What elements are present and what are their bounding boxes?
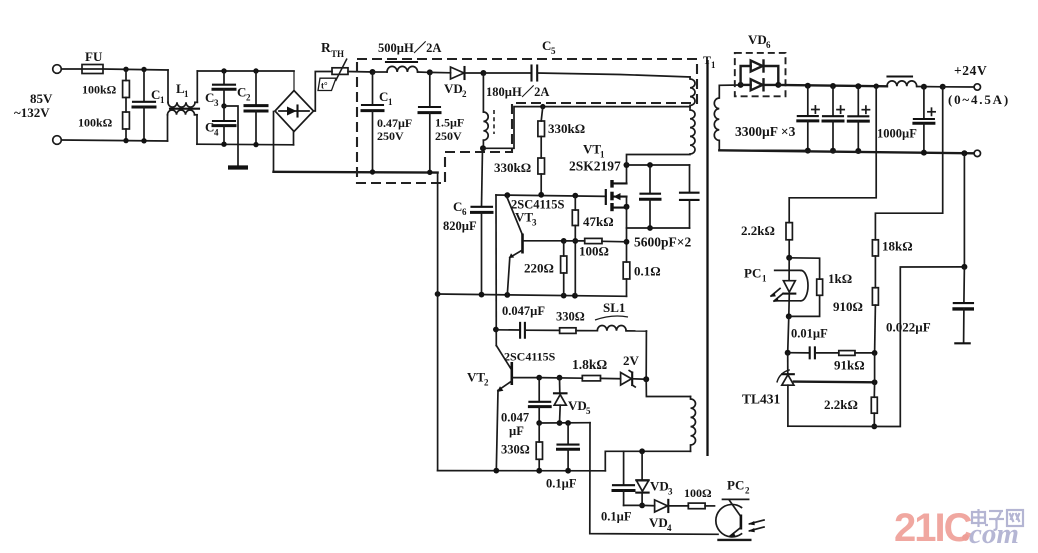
capacitor C4 xyxy=(205,106,235,147)
resistor 100 ohm xyxy=(561,238,627,259)
svg-text:1: 1 xyxy=(160,95,165,105)
svg-text:330Ω: 330Ω xyxy=(501,443,530,457)
gate drive rail xyxy=(496,195,606,196)
svg-text:500µH／2A: 500µH／2A xyxy=(378,40,441,55)
wire to 330k chain xyxy=(483,107,690,149)
svg-text:C: C xyxy=(205,120,214,135)
transistor VT3 2SC4115S xyxy=(507,195,564,295)
feed line to 2.2k / PC1 xyxy=(789,84,879,223)
svg-text:1.5µF: 1.5µF xyxy=(435,116,464,130)
svg-text:1.8kΩ: 1.8kΩ xyxy=(572,357,607,372)
svg-text:0.1Ω: 0.1Ω xyxy=(634,264,661,279)
svg-text:250V: 250V xyxy=(435,129,462,143)
svg-text:t°: t° xyxy=(321,81,328,91)
diode VD5 xyxy=(554,378,591,423)
watermark 21IC xyxy=(894,506,1023,550)
input terminal top xyxy=(53,65,62,74)
capacitor 0.01uF xyxy=(788,327,839,359)
svg-text:C: C xyxy=(379,89,388,104)
svg-text:85V: 85V xyxy=(30,91,53,106)
svg-text:6: 6 xyxy=(766,40,771,50)
diode VD4 xyxy=(642,500,688,533)
svg-text:180µH／2A: 180µH／2A xyxy=(486,84,549,99)
node snubber branch xyxy=(493,327,499,333)
capacitor 0.1uF no.2 xyxy=(601,451,642,523)
T1 secondary winding xyxy=(714,85,808,151)
diode VD2 xyxy=(430,67,484,99)
svg-text:VT: VT xyxy=(583,142,601,157)
TL431 xyxy=(742,353,794,427)
dashed snubber box outline xyxy=(357,59,697,183)
wire to ground xyxy=(224,106,238,166)
input terminal bottom xyxy=(53,136,62,145)
resistor 100k upper xyxy=(82,69,129,112)
svg-text:+24V: +24V xyxy=(954,63,987,78)
rectifier diodes VD6 xyxy=(738,61,782,91)
T1 primary winding xyxy=(627,77,696,165)
node after VD2 xyxy=(480,70,486,76)
capacitor 0.022uF xyxy=(886,267,974,343)
svg-text:2.2kΩ: 2.2kΩ xyxy=(741,223,775,238)
node 180uH bottom xyxy=(480,145,486,151)
wire down to PC2 rail xyxy=(590,423,718,535)
resistor 0.1 ohm xyxy=(623,262,660,296)
node on tap line xyxy=(540,104,545,109)
capacitor 5600pF no.2 xyxy=(680,165,699,228)
svg-text:1: 1 xyxy=(388,97,393,107)
svg-text:T: T xyxy=(703,53,711,67)
svg-text:5: 5 xyxy=(551,46,556,56)
svg-text:330kΩ: 330kΩ xyxy=(494,160,531,175)
svg-text:250V: 250V xyxy=(377,129,404,143)
wire SL1 down to zener node xyxy=(645,331,647,379)
thermistor RTH xyxy=(318,40,373,91)
svg-text:2: 2 xyxy=(246,93,251,103)
resistor 330k lower xyxy=(494,158,545,195)
svg-text:0.047: 0.047 xyxy=(501,411,529,425)
primary ground rail xyxy=(438,294,627,296)
svg-text:(0~4.5A): (0~4.5A) xyxy=(948,92,1010,107)
vertical from output return xyxy=(961,153,967,270)
svg-text:0.1µF: 0.1µF xyxy=(546,477,577,491)
svg-text:VD: VD xyxy=(748,32,767,47)
svg-text:TH: TH xyxy=(331,49,344,59)
inductor L1 common-mode choke xyxy=(168,70,295,145)
resistor 18k xyxy=(872,239,912,288)
svg-text:220Ω: 220Ω xyxy=(524,261,554,276)
capacitor C5 xyxy=(483,38,690,81)
svg-text:5: 5 xyxy=(586,406,591,416)
+24V output terminal xyxy=(940,63,1010,107)
resistor 100k lower xyxy=(78,112,129,141)
feed line to 18k xyxy=(875,87,942,240)
svg-text:3300µF ×3: 3300µF ×3 xyxy=(735,124,796,139)
VT1 source lead down xyxy=(626,207,628,262)
feedback bottom rail xyxy=(788,267,965,427)
wire xyxy=(103,69,168,70)
output filter inductor xyxy=(887,77,943,87)
resistor 47k xyxy=(572,196,613,296)
svg-text:0.01µF: 0.01µF xyxy=(791,327,828,341)
svg-text:2: 2 xyxy=(484,378,489,388)
svg-text:5600pF×2: 5600pF×2 xyxy=(634,235,691,250)
label 85V ~132V xyxy=(14,91,53,120)
output minus terminal xyxy=(961,150,980,156)
dashed box VD6 xyxy=(735,53,786,96)
svg-text:4: 4 xyxy=(667,523,672,533)
resistor 2.2k lower xyxy=(824,382,877,429)
wire 5600pF bottoms xyxy=(627,227,690,229)
capacitor 0.047uF (SL1 branch) xyxy=(496,304,560,338)
resistor 220 ohm xyxy=(524,241,567,296)
T1 aux winding xyxy=(691,397,696,452)
node zener/SL1/aux winding xyxy=(643,376,649,382)
transistor VT2 2SC4115S xyxy=(467,346,556,471)
resistor 910 ohm xyxy=(833,288,878,353)
svg-text:3: 3 xyxy=(668,487,673,497)
electrolytic 1000uF xyxy=(877,84,935,156)
svg-text:91kΩ: 91kΩ xyxy=(834,358,865,373)
resistor 1.8k xyxy=(539,357,620,381)
svg-text:330kΩ: 330kΩ xyxy=(548,121,585,136)
inductor 500uH/2A xyxy=(373,40,441,72)
svg-text:2SC4115S: 2SC4115S xyxy=(504,350,556,364)
svg-text:330Ω: 330Ω xyxy=(556,310,585,324)
svg-text:1: 1 xyxy=(184,89,189,99)
TL431 ref line xyxy=(794,353,878,385)
svg-text:VT: VT xyxy=(467,370,485,385)
svg-text:C: C xyxy=(542,38,551,53)
electrolytic 3300uF x3 xyxy=(798,83,819,154)
svg-text:R: R xyxy=(321,40,331,55)
capacitor 5600pF no.1 xyxy=(641,162,661,231)
primary ground bottom rail xyxy=(438,173,606,474)
svg-text:µF: µF xyxy=(509,424,524,438)
svg-text:C: C xyxy=(237,85,246,100)
svg-text:VT: VT xyxy=(515,210,533,225)
svg-text:SL1: SL1 xyxy=(603,300,625,315)
svg-text:1000µF: 1000µF xyxy=(877,127,917,141)
optocoupler PC1 LED xyxy=(744,255,808,320)
wire LED cathode down xyxy=(788,316,789,352)
svg-text:2V: 2V xyxy=(623,353,640,368)
capacitor 1.5uF 250V xyxy=(419,69,464,175)
DC minus rail from bridge xyxy=(274,171,438,174)
diode VD3 xyxy=(636,451,673,505)
svg-text:910Ω: 910Ω xyxy=(833,299,863,314)
svg-text:C: C xyxy=(205,90,214,105)
svg-text:18kΩ: 18kΩ xyxy=(882,239,913,254)
svg-text:0.47µF: 0.47µF xyxy=(377,116,412,130)
output return rail xyxy=(719,150,973,153)
output plus rail xyxy=(778,85,887,86)
svg-text:3: 3 xyxy=(214,98,219,108)
capacitor C3 xyxy=(205,68,235,108)
svg-text:VD: VD xyxy=(568,398,587,413)
ground xyxy=(228,165,248,169)
capacitor C2 xyxy=(237,68,267,147)
svg-text:100kΩ: 100kΩ xyxy=(78,116,113,130)
optocoupler PC2 phototransistor xyxy=(716,478,764,540)
svg-text:~132V: ~132V xyxy=(14,105,50,120)
svg-text:820µF: 820µF xyxy=(443,219,477,233)
svg-text:3: 3 xyxy=(532,218,537,228)
resistor 91k xyxy=(834,350,877,373)
inductor 180uH/2A xyxy=(483,73,549,148)
svg-text:2SK2197: 2SK2197 xyxy=(569,159,621,174)
wire to aux winding top xyxy=(646,379,690,396)
svg-text:VD: VD xyxy=(650,479,669,494)
svg-text:2: 2 xyxy=(745,486,750,496)
zener 2V xyxy=(621,353,647,387)
capacitor 0.047uF (VT2 base) xyxy=(501,378,550,438)
svg-text:C: C xyxy=(151,87,160,102)
svg-text:6: 6 xyxy=(462,207,467,217)
svg-text:47kΩ: 47kΩ xyxy=(583,214,614,229)
wire xyxy=(62,68,83,70)
resistor 1k parallel to LED xyxy=(789,258,852,317)
svg-text:2: 2 xyxy=(462,89,467,99)
svg-text:VD: VD xyxy=(444,81,463,96)
capacitor C1 (line filter) xyxy=(133,67,165,144)
inductor SL1 xyxy=(595,300,646,331)
resistor 330k upper xyxy=(538,107,585,158)
resistor 330 ohm (VT2) xyxy=(501,420,543,471)
svg-text:21IC: 21IC xyxy=(894,506,972,550)
svg-text:100Ω: 100Ω xyxy=(684,486,712,500)
svg-text:4: 4 xyxy=(214,128,219,138)
drain rail xyxy=(624,162,690,168)
resistor 330 ohm (SL1 branch) xyxy=(556,310,597,334)
svg-text:100Ω: 100Ω xyxy=(579,244,609,259)
svg-text:0.047µF: 0.047µF xyxy=(502,304,545,318)
svg-text:2.2kΩ: 2.2kΩ xyxy=(824,397,858,412)
capacitor C6 820uF xyxy=(443,148,492,295)
svg-text:FU: FU xyxy=(85,49,103,64)
node top-left xyxy=(123,67,128,72)
VT2 collector vertical from gate rail xyxy=(495,195,497,346)
capacitor 0.1uF no.1 xyxy=(546,423,579,491)
resistor 100 ohm (PC2) xyxy=(684,486,715,509)
svg-text:PC: PC xyxy=(744,266,761,281)
VT2 base line nodes xyxy=(536,375,542,381)
MOSFET VT1 2SK2197 xyxy=(569,142,630,212)
svg-text:0.022µF: 0.022µF xyxy=(886,320,931,335)
svg-text:TL431: TL431 xyxy=(742,392,781,407)
node xyxy=(123,138,128,143)
resistor 2.2k upper xyxy=(741,223,792,258)
svg-text:1: 1 xyxy=(762,274,767,284)
bridge rectifier xyxy=(274,71,333,172)
aux winding bottom wire xyxy=(605,451,690,471)
svg-text:VD: VD xyxy=(649,515,668,530)
wire bottom rail xyxy=(62,140,168,141)
svg-text:1kΩ: 1kΩ xyxy=(828,271,852,286)
svg-text:0.1µF: 0.1µF xyxy=(601,510,632,524)
transformer T1 core xyxy=(703,53,716,456)
line y423 xyxy=(539,420,590,426)
svg-text:C: C xyxy=(453,199,462,214)
svg-text:PC: PC xyxy=(727,478,744,493)
svg-text:1: 1 xyxy=(711,60,716,70)
fuse FU xyxy=(82,49,103,74)
capacitor C1' 0.47uF 250V xyxy=(362,69,412,175)
svg-text:100kΩ: 100kΩ xyxy=(82,83,117,97)
